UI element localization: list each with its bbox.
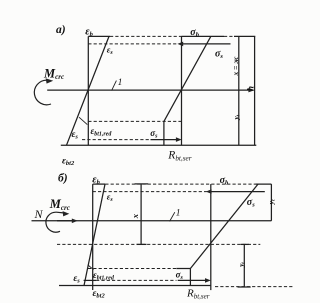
svg-text:N: N [34,207,44,221]
svg-text:x: x [130,213,140,219]
svg-text:εs: εs [107,45,114,57]
svg-text:σs: σs [247,197,255,209]
svg-text:εbt2: εbt2 [93,289,106,300]
svg-text:б): б) [58,173,68,185]
svg-text:σs: σs [176,270,184,282]
svg-text:εb: εb [92,175,100,187]
svg-text:εs: εs [73,274,80,285]
svg-text:yc: yc [268,198,277,205]
svg-text:1: 1 [176,209,181,219]
svg-text:yt: yt [237,262,246,268]
svg-text:σs: σs [150,128,158,140]
svg-text:σb: σb [220,175,229,187]
svg-text:Mcrc: Mcrc [49,197,70,212]
svg-text:yt: yt [232,114,241,120]
svg-text:σs: σs [215,49,223,61]
svg-text:Mcrc: Mcrc [43,66,64,81]
svg-text:εs: εs [72,130,79,141]
svg-text:Rbt,ser: Rbt,ser [167,150,191,163]
svg-text:h: h [246,86,256,91]
svg-text:а): а) [56,24,66,36]
svg-text:1: 1 [118,78,123,88]
svg-text:εbt2: εbt2 [62,157,75,168]
svg-text:εb: εb [85,27,93,39]
svg-text:εbt1,red: εbt1,red [91,126,113,138]
svg-text:x = ж: x = ж [231,57,240,77]
svg-text:εs: εs [107,192,114,204]
svg-text:εbt1,red: εbt1,red [93,270,115,282]
svg-text:Rbt,ser: Rbt,ser [186,288,210,301]
svg-text:σb: σb [190,27,199,39]
